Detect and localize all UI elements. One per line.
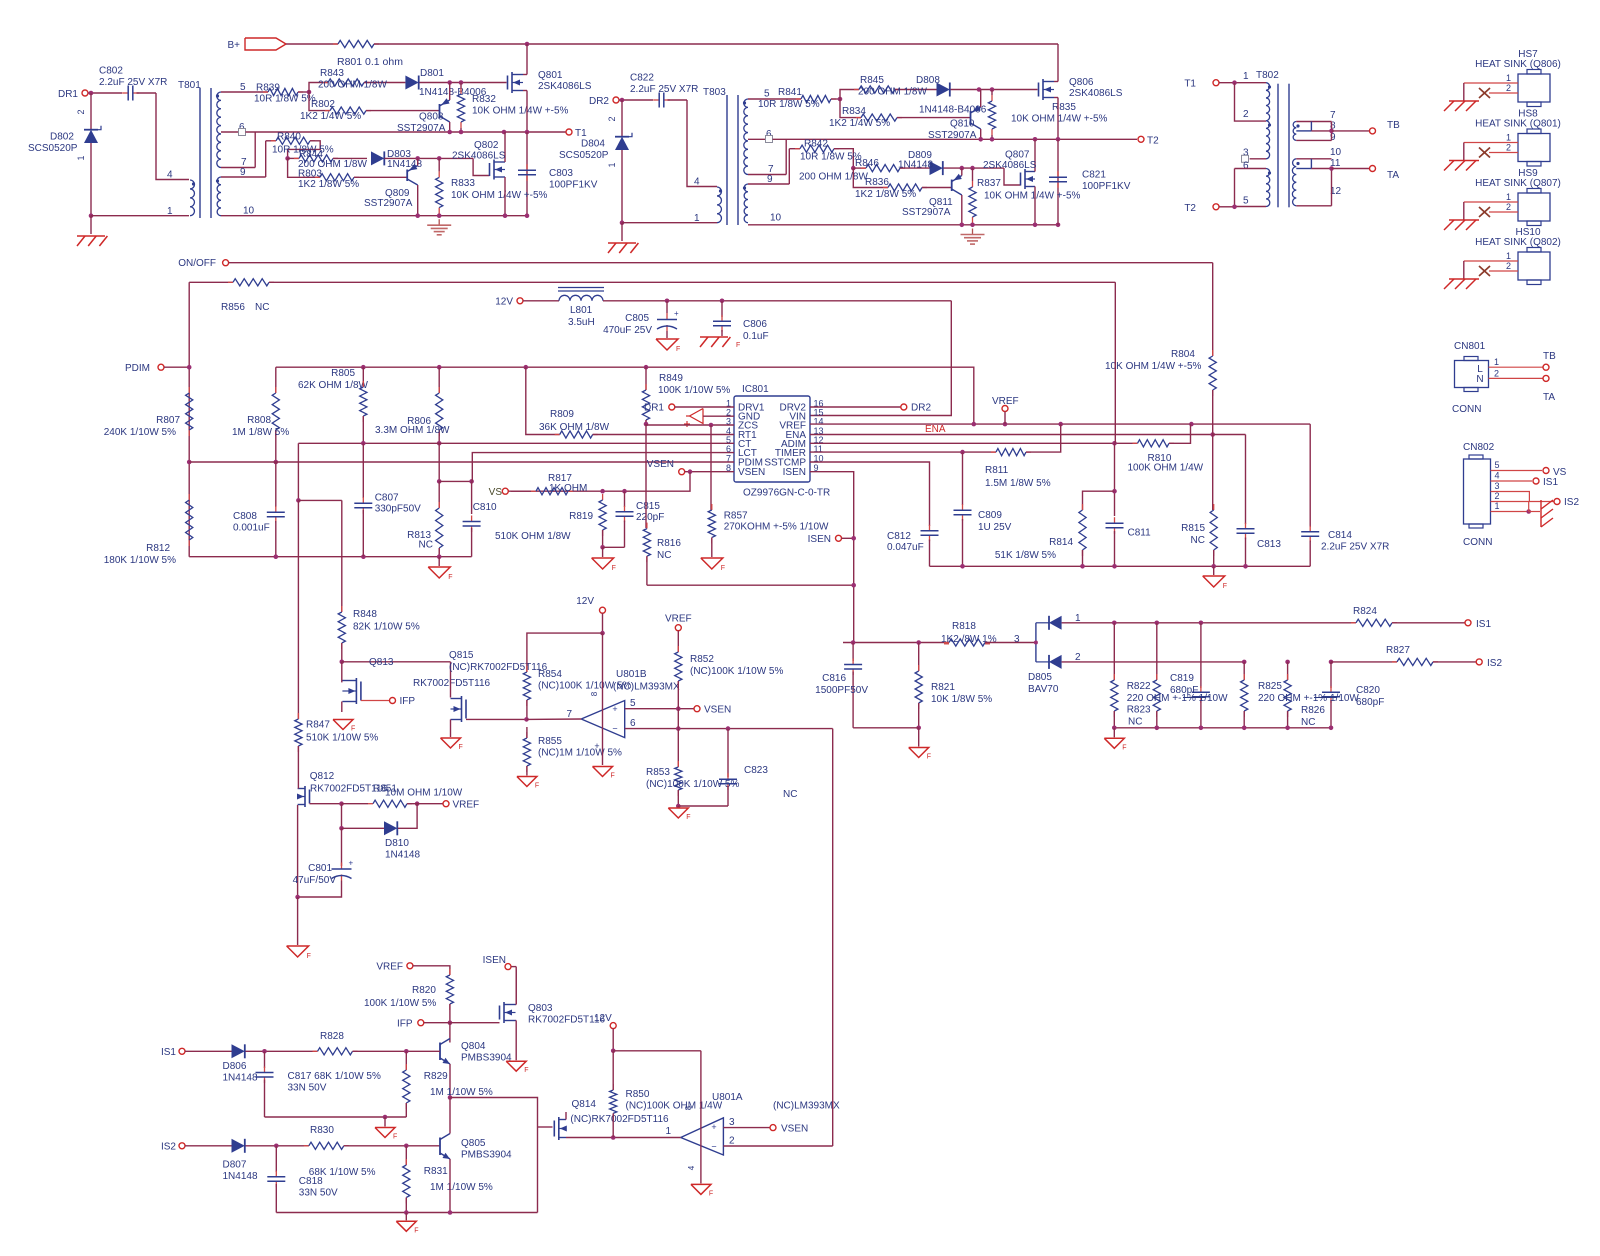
svg-text:R818: R818	[952, 621, 976, 632]
svg-text:R815: R815	[1181, 523, 1205, 534]
svg-text:C812: C812	[887, 531, 911, 542]
svg-text:CN801: CN801	[1454, 341, 1486, 352]
svg-text:10R 1/8W 5%: 10R 1/8W 5%	[800, 152, 862, 163]
svg-text:1N4148: 1N4148	[385, 850, 420, 861]
svg-text:VSEN: VSEN	[781, 1124, 808, 1135]
svg-text:ISEN: ISEN	[808, 534, 831, 545]
svg-text:T801: T801	[178, 80, 201, 91]
svg-text:R811: R811	[985, 465, 1009, 476]
svg-text:ENA: ENA	[925, 424, 946, 435]
svg-text:6: 6	[630, 718, 636, 729]
svg-text:HEAT SINK (Q802): HEAT SINK (Q802)	[1475, 237, 1561, 248]
svg-text:4: 4	[167, 170, 173, 181]
svg-text:1: 1	[1495, 501, 1500, 511]
svg-text:R807: R807	[156, 415, 180, 426]
svg-text:IS1: IS1	[1476, 619, 1491, 630]
svg-text:R846: R846	[855, 158, 879, 169]
svg-text:+: +	[674, 309, 679, 318]
svg-text:T803: T803	[703, 87, 726, 98]
svg-text:R803: R803	[298, 168, 322, 179]
svg-text:10M OHM 1/10W: 10M OHM 1/10W	[385, 788, 463, 799]
svg-text:N: N	[1476, 374, 1483, 385]
svg-text:R855: R855	[538, 736, 562, 747]
svg-text:R819: R819	[569, 511, 593, 522]
svg-text:VREF: VREF	[376, 962, 403, 973]
svg-text:3: 3	[1014, 634, 1020, 645]
svg-text:VREF: VREF	[453, 800, 480, 811]
svg-text:8: 8	[590, 691, 599, 696]
svg-text:0.047uF: 0.047uF	[887, 542, 924, 553]
svg-text:R825: R825	[1258, 681, 1282, 692]
svg-text:12V: 12V	[594, 1013, 612, 1024]
svg-text:NC: NC	[783, 789, 797, 800]
svg-text:2: 2	[1506, 83, 1511, 93]
svg-text:(NC)RK7002FD5T116: (NC)RK7002FD5T116	[449, 662, 548, 673]
svg-text:R840: R840	[277, 132, 301, 143]
svg-text:F: F	[459, 744, 463, 751]
svg-text:IS2: IS2	[1564, 497, 1579, 508]
svg-text:47uF/50V: 47uF/50V	[293, 875, 337, 886]
svg-text:D808: D808	[916, 75, 940, 86]
svg-text:240K 1/10W 5%: 240K 1/10W 5%	[104, 427, 176, 438]
svg-text:1: 1	[607, 162, 617, 167]
svg-text:1M 1/8W 5%: 1M 1/8W 5%	[232, 427, 289, 438]
svg-text:T2: T2	[1184, 203, 1196, 214]
svg-text:R845: R845	[860, 75, 884, 86]
svg-text:C814: C814	[1328, 530, 1352, 541]
svg-text:10: 10	[1330, 147, 1342, 158]
svg-text:R824: R824	[1353, 606, 1377, 617]
svg-text:NC: NC	[1191, 535, 1205, 546]
svg-text:1N4148: 1N4148	[223, 1171, 258, 1182]
svg-text:2.2uF 25V X7R: 2.2uF 25V X7R	[630, 84, 698, 95]
svg-text:C803: C803	[549, 168, 573, 179]
svg-text:R842: R842	[804, 139, 828, 150]
svg-text:CONN: CONN	[1452, 404, 1481, 415]
svg-text:4: 4	[1495, 471, 1500, 481]
svg-text:ISEN: ISEN	[483, 955, 506, 966]
svg-text:DR2: DR2	[589, 96, 609, 107]
svg-text:Q814: Q814	[572, 1099, 597, 1110]
svg-text:1K OHM: 1K OHM	[549, 483, 587, 494]
svg-text:NC: NC	[255, 302, 269, 313]
svg-text:R849: R849	[659, 373, 683, 384]
svg-text:U801B: U801B	[616, 669, 647, 680]
svg-text:R812: R812	[146, 543, 170, 554]
svg-text:2: 2	[607, 116, 617, 121]
svg-text:5: 5	[1495, 460, 1500, 470]
svg-text:10K OHM 1/4W +-5%: 10K OHM 1/4W +-5%	[984, 191, 1081, 202]
svg-text:T2: T2	[1147, 135, 1159, 146]
svg-text:D807: D807	[223, 1160, 247, 1171]
svg-text:Q804: Q804	[461, 1041, 486, 1052]
svg-text:3.5uH: 3.5uH	[568, 317, 595, 328]
svg-text:PMBS3904: PMBS3904	[461, 1053, 512, 1064]
svg-text:DR1: DR1	[644, 403, 664, 414]
svg-text:HEAT SINK (Q806): HEAT SINK (Q806)	[1475, 59, 1561, 70]
svg-text:R828: R828	[320, 1031, 344, 1042]
svg-text:NC: NC	[1128, 717, 1142, 728]
svg-text:IS1: IS1	[1543, 477, 1558, 488]
svg-text:10K OHM 1/4W +-5%: 10K OHM 1/4W +-5%	[472, 106, 569, 117]
svg-text:TA: TA	[1543, 392, 1555, 403]
svg-text:Q801: Q801	[538, 70, 563, 81]
svg-text:C823: C823	[744, 765, 768, 776]
svg-text:12V: 12V	[576, 596, 594, 607]
svg-text:T1: T1	[1184, 79, 1196, 90]
svg-text:F: F	[709, 1190, 713, 1197]
svg-text:1: 1	[1243, 71, 1249, 82]
svg-text:7: 7	[1330, 110, 1336, 121]
svg-text:Q813: Q813	[369, 657, 394, 668]
svg-text:−: −	[711, 1142, 716, 1152]
svg-text:1: 1	[1494, 357, 1499, 367]
svg-text:1: 1	[1506, 133, 1511, 143]
svg-text:33N 50V: 33N 50V	[288, 1083, 327, 1094]
svg-text:Q806: Q806	[1069, 77, 1094, 88]
svg-text:1.5M 1/8W 5%: 1.5M 1/8W 5%	[985, 478, 1051, 489]
svg-text:F: F	[393, 1134, 397, 1141]
svg-text:2SK4086LS: 2SK4086LS	[452, 151, 506, 162]
svg-text:10: 10	[770, 213, 782, 224]
svg-text:(NC)LM393MX: (NC)LM393MX	[613, 682, 680, 693]
svg-text:1M 1/10W 5%: 1M 1/10W 5%	[430, 1182, 493, 1193]
svg-text:F: F	[535, 783, 539, 790]
svg-text:D802: D802	[50, 132, 74, 143]
svg-text:470uF 25V: 470uF 25V	[603, 325, 652, 336]
svg-text:NC: NC	[1301, 717, 1315, 728]
svg-text:1: 1	[167, 206, 173, 217]
svg-text:IS2: IS2	[161, 1142, 176, 1153]
svg-text:IFP: IFP	[397, 1019, 413, 1030]
svg-text:12V: 12V	[495, 297, 513, 308]
svg-text:2: 2	[1506, 261, 1511, 271]
svg-text:2: 2	[1506, 202, 1511, 212]
svg-text:2.2uF 25V X7R: 2.2uF 25V X7R	[1321, 542, 1389, 553]
svg-text:200 OHM 1/8W: 200 OHM 1/8W	[799, 172, 868, 183]
svg-text:R843: R843	[320, 68, 344, 79]
svg-text:1: 1	[1506, 251, 1511, 261]
svg-text:IFP: IFP	[400, 696, 416, 707]
svg-text:0.001uF: 0.001uF	[233, 523, 270, 534]
svg-text:−: −	[612, 724, 617, 734]
svg-text:IS1: IS1	[161, 1047, 176, 1058]
svg-text:VREF: VREF	[665, 614, 692, 625]
svg-text:8: 8	[684, 1105, 693, 1110]
svg-text:2.2uF 25V X7R: 2.2uF 25V X7R	[99, 77, 167, 88]
svg-text:TB: TB	[1543, 351, 1556, 362]
svg-text:(NC)RK7002FD5T116: (NC)RK7002FD5T116	[570, 1114, 669, 1125]
svg-text:D801: D801	[420, 68, 444, 79]
svg-text:C801: C801	[308, 863, 332, 874]
svg-text:36K OHM 1/8W: 36K OHM 1/8W	[539, 422, 610, 433]
svg-text:R831: R831	[424, 1166, 448, 1177]
svg-text:R829: R829	[424, 1071, 448, 1082]
svg-text:+: +	[711, 1122, 716, 1132]
svg-text:D804: D804	[581, 139, 605, 150]
svg-text:C815: C815	[636, 501, 660, 512]
svg-text:10K OHM 1/4W +-5%: 10K OHM 1/4W +-5%	[1105, 361, 1202, 372]
svg-text:R835: R835	[1052, 102, 1076, 113]
svg-text:R839: R839	[256, 83, 280, 94]
svg-text:R854: R854	[538, 669, 562, 680]
svg-text:(NC)1M 1/10W 5%: (NC)1M 1/10W 5%	[538, 748, 622, 759]
svg-text:220 OHM +-1% 1/10W: 220 OHM +-1% 1/10W	[1258, 693, 1359, 704]
svg-text:CONN: CONN	[1463, 537, 1492, 548]
svg-text:C821: C821	[1082, 170, 1106, 181]
svg-text:100K 1/10W 5%: 100K 1/10W 5%	[364, 998, 436, 1009]
svg-text:2SK4086LS: 2SK4086LS	[1069, 88, 1123, 99]
svg-text:200 OHM 1/8W: 200 OHM 1/8W	[858, 87, 927, 98]
svg-text:680pF: 680pF	[1170, 685, 1198, 696]
svg-text:R826: R826	[1301, 705, 1325, 716]
svg-text:D805: D805	[1028, 672, 1052, 683]
svg-text:TA: TA	[1387, 170, 1399, 181]
svg-text:2: 2	[1075, 652, 1081, 663]
svg-text:2: 2	[1243, 109, 1249, 120]
svg-text:5: 5	[764, 89, 770, 100]
svg-text:HEAT SINK (Q801): HEAT SINK (Q801)	[1475, 119, 1561, 130]
svg-text:9: 9	[240, 167, 246, 178]
svg-text:2: 2	[76, 109, 86, 114]
svg-text:C810: C810	[473, 502, 497, 513]
svg-text:F: F	[611, 773, 615, 780]
svg-text:R820: R820	[412, 985, 436, 996]
svg-text:Q803: Q803	[528, 1003, 553, 1014]
svg-text:10R 1/8W 5%: 10R 1/8W 5%	[758, 99, 820, 110]
svg-text:R832: R832	[472, 94, 496, 105]
svg-text:C809: C809	[978, 510, 1002, 521]
svg-text:C807: C807	[375, 493, 399, 504]
svg-text:SCS0520P: SCS0520P	[28, 143, 78, 154]
svg-text:T802: T802	[1256, 70, 1279, 81]
svg-text:NC: NC	[657, 550, 671, 561]
svg-text:3: 3	[1495, 481, 1500, 491]
svg-text:NC: NC	[419, 540, 433, 551]
svg-text:CN802: CN802	[1463, 442, 1495, 453]
svg-text:ISEN: ISEN	[783, 467, 806, 478]
svg-text:Q812: Q812	[310, 771, 335, 782]
svg-text:Q808: Q808	[419, 112, 444, 123]
svg-text:C817 68K 1/10W 5%: C817 68K 1/10W 5%	[288, 1071, 381, 1082]
svg-text:200 OHM 1/8W: 200 OHM 1/8W	[318, 80, 387, 91]
svg-text:R836: R836	[865, 177, 889, 188]
svg-text:2: 2	[729, 1136, 735, 1147]
svg-text:82K 1/10W 5%: 82K 1/10W 5%	[353, 622, 420, 633]
svg-text:51K 1/8W 5%: 51K 1/8W 5%	[995, 550, 1056, 561]
svg-text:D806: D806	[223, 1061, 247, 1072]
svg-text:6: 6	[1243, 161, 1249, 172]
svg-text:1: 1	[76, 155, 86, 160]
svg-text:100PF1KV: 100PF1KV	[1082, 181, 1131, 192]
svg-text:2: 2	[1495, 491, 1500, 501]
svg-text:R801 0.1 ohm: R801 0.1 ohm	[337, 56, 403, 68]
svg-text:R847: R847	[306, 720, 330, 731]
svg-text:R827: R827	[1386, 645, 1410, 656]
svg-text:C808: C808	[233, 511, 257, 522]
svg-text:14: 14	[814, 417, 824, 427]
svg-text:+: +	[612, 704, 617, 714]
svg-text:62K OHM 1/8W: 62K OHM 1/8W	[298, 380, 369, 391]
svg-text:2SK4086LS: 2SK4086LS	[538, 81, 592, 92]
svg-text:R853: R853	[646, 767, 670, 778]
svg-text:R830: R830	[310, 1125, 334, 1136]
svg-text:1: 1	[694, 213, 700, 224]
svg-text:10: 10	[243, 206, 255, 217]
svg-text:2: 2	[1506, 143, 1511, 153]
svg-text:1: 1	[665, 1126, 671, 1137]
svg-text:0.1uF: 0.1uF	[743, 331, 769, 342]
svg-text:R837: R837	[977, 178, 1001, 189]
svg-text:R852: R852	[690, 654, 714, 665]
svg-text:220pF: 220pF	[636, 512, 664, 523]
svg-text:(NC)100K OHM 1/4W: (NC)100K OHM 1/4W	[626, 1101, 723, 1112]
svg-text:TB: TB	[1387, 120, 1400, 131]
svg-text:R816: R816	[657, 538, 681, 549]
svg-text:T1: T1	[575, 128, 587, 139]
svg-text:R814: R814	[1049, 537, 1073, 548]
svg-text:5: 5	[240, 82, 246, 93]
svg-text:DR1: DR1	[58, 89, 78, 100]
svg-text:OZ9976GN-C-0-TR: OZ9976GN-C-0-TR	[743, 488, 830, 499]
svg-text:270KOHM +-5% 1/10W: 270KOHM +-5% 1/10W	[724, 522, 829, 533]
svg-text:33N 50V: 33N 50V	[299, 1188, 338, 1199]
svg-text:+: +	[594, 741, 599, 751]
svg-text:10K OHM 1/4W +-5%: 10K OHM 1/4W +-5%	[451, 190, 548, 201]
svg-text:R809: R809	[550, 409, 574, 420]
svg-text:R822: R822	[1127, 681, 1151, 692]
svg-text:3.3M OHM 1/8W: 3.3M OHM 1/8W	[375, 425, 450, 436]
svg-text:F: F	[1122, 744, 1126, 751]
svg-text:SCS0520P: SCS0520P	[559, 150, 609, 161]
svg-text:R805: R805	[331, 368, 355, 379]
svg-text:R823: R823	[1127, 705, 1151, 716]
svg-text:U801A: U801A	[712, 1092, 743, 1103]
svg-text:100K 1/10W 5%: 100K 1/10W 5%	[658, 385, 730, 396]
svg-text:R848: R848	[353, 609, 377, 620]
svg-text:4: 4	[687, 1165, 696, 1170]
svg-text:1M 1/10W 5%: 1M 1/10W 5%	[430, 1087, 493, 1098]
svg-text:10K OHM 1/4W +-5%: 10K OHM 1/4W +-5%	[1011, 114, 1108, 125]
svg-text:1N4148: 1N4148	[223, 1073, 258, 1084]
svg-text:VSEN: VSEN	[647, 459, 674, 470]
svg-text:VSEN: VSEN	[738, 467, 765, 478]
svg-text:VSEN: VSEN	[704, 705, 731, 716]
svg-text:F: F	[414, 1227, 418, 1234]
svg-text:R856: R856	[221, 302, 245, 313]
svg-text:C805: C805	[625, 313, 649, 324]
svg-text:R804: R804	[1171, 349, 1195, 360]
svg-text:R841: R841	[778, 87, 802, 98]
svg-text:SST2907A: SST2907A	[364, 198, 413, 209]
svg-text:3: 3	[729, 1117, 735, 1128]
svg-text:1U 25V: 1U 25V	[978, 522, 1012, 533]
svg-text:F: F	[612, 565, 616, 572]
svg-text:DR2: DR2	[911, 403, 931, 414]
svg-text:R850: R850	[626, 1089, 650, 1100]
svg-text:10R 1/8W 5%: 10R 1/8W 5%	[254, 94, 316, 105]
svg-text:C813: C813	[1257, 539, 1281, 550]
svg-text:510K 1/10W 5%: 510K 1/10W 5%	[306, 733, 378, 744]
svg-text:SST2907A: SST2907A	[902, 207, 951, 218]
svg-text:C822: C822	[630, 73, 654, 84]
svg-text:F: F	[686, 814, 690, 821]
svg-text:Q805: Q805	[461, 1138, 486, 1149]
svg-text:9: 9	[767, 174, 773, 185]
svg-text:BAV70: BAV70	[1028, 684, 1059, 695]
svg-text:VREF: VREF	[992, 396, 1019, 407]
svg-text:5: 5	[630, 698, 636, 709]
svg-text:F: F	[524, 1067, 528, 1074]
svg-text:HEAT SINK (Q807): HEAT SINK (Q807)	[1475, 178, 1561, 189]
svg-text:IS2: IS2	[1487, 658, 1502, 669]
svg-text:100K OHM 1/4W: 100K OHM 1/4W	[1128, 463, 1204, 474]
svg-text:R802: R802	[311, 99, 335, 110]
svg-text:ON/OFF: ON/OFF	[178, 258, 216, 269]
svg-text:C820: C820	[1356, 685, 1380, 696]
svg-text:680pF: 680pF	[1356, 697, 1384, 708]
svg-text:L801: L801	[570, 305, 593, 316]
svg-text:(NC)100K 1/10W 5%: (NC)100K 1/10W 5%	[690, 666, 783, 677]
svg-text:R834: R834	[842, 106, 866, 117]
svg-text:C806: C806	[743, 319, 767, 330]
svg-text:R833: R833	[451, 178, 475, 189]
svg-text:F: F	[736, 342, 740, 349]
svg-text:1N4148: 1N4148	[898, 160, 933, 171]
svg-text:R821: R821	[931, 682, 955, 693]
svg-text:1: 1	[1506, 192, 1511, 202]
svg-text:R857: R857	[724, 511, 748, 522]
svg-text:PMBS3904: PMBS3904	[461, 1150, 512, 1161]
svg-text:2: 2	[1494, 369, 1499, 379]
svg-text:IC801: IC801	[742, 384, 769, 395]
svg-text:Q815: Q815	[449, 650, 474, 661]
svg-text:PDIM: PDIM	[125, 363, 150, 374]
svg-text:RK7002FD5T116: RK7002FD5T116	[413, 678, 491, 689]
svg-text:D810: D810	[385, 838, 409, 849]
svg-text:7: 7	[566, 709, 572, 720]
svg-text:F: F	[448, 574, 452, 581]
svg-text:10K 1/8W 5%: 10K 1/8W 5%	[931, 694, 992, 705]
svg-text:Q807: Q807	[1005, 150, 1030, 161]
svg-text:C802: C802	[99, 66, 123, 77]
svg-text:F: F	[676, 346, 680, 353]
svg-text:5: 5	[1243, 196, 1249, 207]
svg-text:2SK4086LS: 2SK4086LS	[983, 160, 1037, 171]
svg-text:Q802: Q802	[474, 140, 499, 151]
svg-text:1K2 1/8W 5%: 1K2 1/8W 5%	[855, 189, 916, 200]
svg-text:C816: C816	[822, 673, 846, 684]
svg-text:180K 1/10W 5%: 180K 1/10W 5%	[104, 555, 176, 566]
svg-text:Q810: Q810	[950, 119, 975, 130]
svg-text:B+: B+	[227, 40, 240, 51]
svg-text:100PF1KV: 100PF1KV	[549, 180, 598, 191]
svg-text:F: F	[721, 565, 725, 572]
svg-text:F: F	[351, 726, 355, 733]
svg-text:1: 1	[1506, 73, 1511, 83]
svg-text:1K2 1/4W 5%: 1K2 1/4W 5%	[300, 111, 361, 122]
svg-text:C818: C818	[299, 1176, 323, 1187]
svg-text:1500PF50V: 1500PF50V	[815, 685, 868, 696]
svg-text:1: 1	[1075, 613, 1081, 624]
svg-text:330pF50V: 330pF50V	[375, 504, 421, 515]
svg-text:C819: C819	[1170, 673, 1194, 684]
svg-text:4: 4	[694, 177, 700, 188]
svg-text:F: F	[1223, 583, 1227, 590]
svg-text:C811: C811	[1128, 528, 1152, 539]
svg-text:F: F	[307, 953, 311, 960]
svg-text:(NC)LM393MX: (NC)LM393MX	[773, 1101, 840, 1112]
